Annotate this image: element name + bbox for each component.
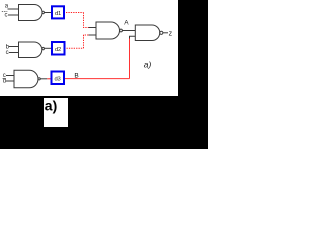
svg-text:A: A (124, 19, 129, 26)
svg-text:B: B (74, 72, 78, 79)
svg-text:d: d (3, 78, 6, 84)
svg-text:c: c (6, 50, 9, 56)
svg-text:d3: d3 (55, 76, 61, 82)
svg-text:d2: d2 (55, 47, 61, 53)
svg-text:a): a) (144, 59, 152, 69)
svg-text:c: c (5, 13, 8, 19)
svg-text:d1: d1 (55, 11, 61, 17)
svg-text:z: z (169, 31, 173, 38)
svg-text:a): a) (45, 98, 57, 114)
